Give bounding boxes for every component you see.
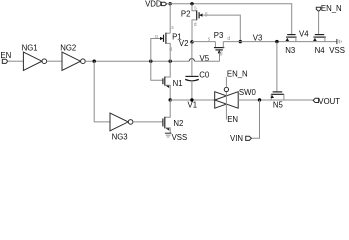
wire EN_N to N4 gate (318, 11, 320, 34)
wire up to P1 gate (151, 39, 160, 62)
wire V3 down to N5 gate (276, 42, 278, 92)
svg-text:g: g (155, 34, 158, 40)
transistor P3 (208, 31, 231, 61)
port EN_N top (316, 4, 341, 13)
svg-text:d: d (227, 36, 230, 42)
wire SW0 to N5 to VOUT (238, 99, 313, 101)
wire hop over C0 column (189, 59, 194, 62)
node P2 source junction (190, 2, 193, 5)
transistor N2 (163, 100, 183, 133)
svg-text:C0: C0 (199, 71, 210, 80)
node V2 (190, 40, 193, 43)
capacitor C0 (185, 42, 210, 100)
node junction P1 drain / N1 drain (169, 60, 172, 63)
wire V5 continues to P3 gate (195, 60, 220, 62)
transistor N1 (163, 61, 183, 100)
wire EN port to NG1 (8, 60, 24, 62)
svg-text:EN: EN (227, 115, 238, 124)
transistor N3 (285, 35, 296, 56)
node P3 drain / P2 gate (239, 40, 242, 43)
wire net V1 (170, 99, 215, 101)
svg-text:g: g (205, 11, 208, 17)
svg-text:NG2: NG2 (60, 43, 76, 52)
node VIN junction (258, 98, 261, 101)
inverter NG2 (60, 43, 85, 70)
inverter NG1 (22, 43, 47, 70)
svg-text:VSS: VSS (172, 133, 188, 142)
svg-text:d: d (194, 22, 197, 28)
svg-text:VDD: VDD (145, 0, 162, 8)
wire V2 to P3 source (192, 41, 215, 43)
wire EN stub below SW0 (225, 108, 227, 119)
transistor P1 (155, 25, 182, 61)
wire NG1 to NG2 (47, 60, 62, 62)
svg-text:NG3: NG3 (112, 132, 128, 141)
inverter NG3 (110, 113, 133, 141)
svg-text:N5: N5 (273, 101, 284, 110)
svg-text:N4: N4 (315, 46, 326, 55)
node V1 left (N1 source / N2 drain) (169, 98, 172, 101)
svg-text:P2: P2 (181, 10, 191, 19)
wire down to N1 gate (151, 61, 163, 80)
wire VDD rail to N3 gate (167, 4, 292, 35)
transistor N5 (271, 92, 284, 110)
wire VDD down to P1 source (169, 4, 171, 33)
node N5 gate branch (275, 40, 278, 43)
node VDD junction (169, 2, 172, 5)
svg-text:P3: P3 (214, 31, 224, 40)
svg-text:V1: V1 (188, 101, 198, 110)
svg-text:V4: V4 (299, 30, 309, 39)
wire VIN riser (251, 100, 259, 138)
port VOUT (313, 97, 340, 106)
wire NG2 output net V5 horizontal (85, 60, 189, 62)
node V1 capacitor junction (190, 98, 193, 101)
port VDD (145, 0, 167, 8)
supply tap VSS under N2 (165, 133, 187, 142)
node junction P1/N1 gate branch (149, 60, 152, 63)
svg-text:NG1: NG1 (22, 43, 38, 52)
wire down to NG3 (94, 61, 110, 122)
port EN (0, 51, 11, 63)
svg-text:EN_N: EN_N (227, 70, 248, 79)
svg-text:V3: V3 (253, 33, 263, 42)
switch SW0 transmission gate (215, 87, 257, 108)
node junction NG3 branch (93, 60, 96, 63)
transistor N4 (313, 35, 326, 56)
svg-text:V2: V2 (179, 39, 189, 48)
port VIN (230, 134, 251, 143)
transistor P2 (181, 4, 208, 42)
svg-text:VOUT: VOUT (318, 97, 340, 106)
svg-text:VIN: VIN (230, 134, 243, 143)
svg-text:N3: N3 (285, 46, 295, 55)
wire EN_N stub above SW0 (225, 77, 227, 87)
wire NG3 to N2 gate (133, 121, 163, 123)
wire net V3 (223, 41, 337, 43)
supply tap VSS right (329, 39, 345, 55)
svg-text:EN_N: EN_N (321, 4, 342, 13)
svg-text:N2: N2 (173, 119, 183, 128)
svg-text:N1: N1 (173, 79, 183, 88)
wire P2 gate to P3 drain node (203, 15, 240, 41)
svg-text:VSS: VSS (329, 46, 345, 55)
svg-text:SW0: SW0 (239, 88, 257, 97)
